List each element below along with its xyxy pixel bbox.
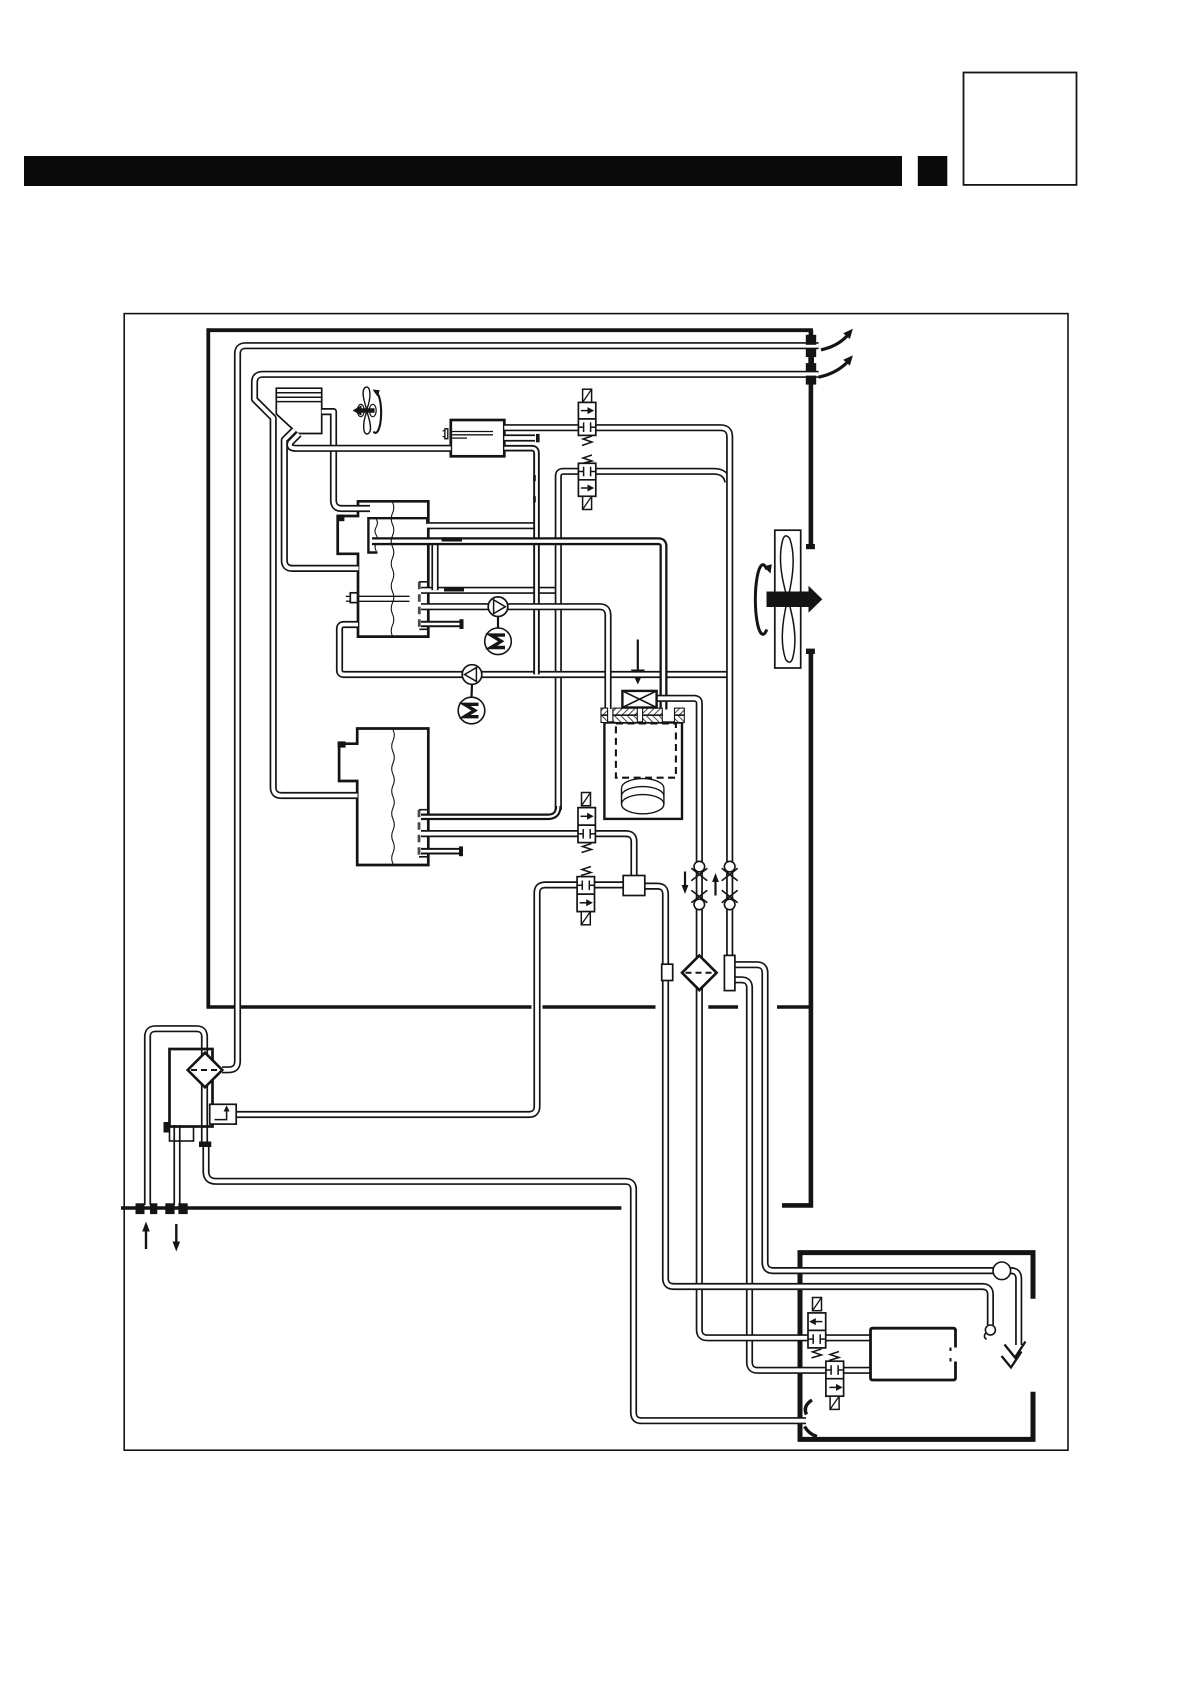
- heat pump left plug: [445, 429, 448, 439]
- machine frame top edge: [207, 328, 813, 332]
- wire P1 heat exchanger riser to top exhaust: [222, 346, 819, 1070]
- wire G heat exchanger lower drop: [173, 1125, 180, 1205]
- spray nozzle circle: [993, 1262, 1011, 1280]
- compressor header hatched blocks: [601, 708, 608, 715]
- orifice rectangle on drip line: [662, 964, 673, 980]
- solenoid valve SV3: [578, 793, 595, 853]
- page number box: [964, 73, 1077, 185]
- bottom-left supply line: [121, 1206, 621, 1209]
- junction block square: [623, 876, 645, 896]
- upper tank body: [338, 501, 429, 636]
- black bar mark on H1 pipe: [444, 587, 464, 591]
- solenoid valve SV1: [578, 389, 595, 445]
- machine frame left edge: [206, 328, 210, 1008]
- condenser fins: [276, 392, 321, 394]
- splash crescent upper: [805, 1400, 812, 1415]
- machine frame bottom edge segment 1: [207, 1005, 532, 1008]
- exhaust curved arrow 1: [821, 336, 847, 350]
- lower tank body: [339, 729, 428, 866]
- check valve CV2: [724, 861, 735, 872]
- lower tank notch nub: [338, 741, 346, 747]
- compressor chamber dashed liner: [616, 724, 676, 778]
- machine frame bottom edge segment 2: [543, 1005, 656, 1008]
- wire S1 manifold to spray nozzle circle: [735, 965, 1019, 1345]
- upper tank level wavy line: [391, 502, 394, 636]
- wire rod pipe tank to compressor header: [372, 541, 664, 709]
- wire condenser to heat pump suction: [290, 434, 451, 448]
- lower tank stub with cap: [421, 848, 459, 855]
- wall upper cap: [806, 544, 815, 549]
- upper tank heater element lines: [358, 595, 410, 597]
- supply up arrow: [145, 1230, 147, 1249]
- solenoid valve SV2: [578, 455, 595, 510]
- heat exchanger corner nub: [164, 1122, 171, 1133]
- title bar: [24, 156, 902, 186]
- fan shroud: [775, 530, 801, 668]
- machine frame right wall upper segment: [809, 330, 814, 544]
- heat pump inner lines: [452, 431, 493, 433]
- CV1 down arrow: [684, 872, 686, 887]
- wall exhaust squares: [806, 335, 816, 345]
- drain funnel chevrons: [1005, 1342, 1026, 1358]
- restrictor box with arrow: [210, 1104, 237, 1124]
- silencer rectangle: [871, 1328, 956, 1380]
- compressor chamber box: [604, 723, 682, 819]
- heat exchanger bottom black bar: [199, 1142, 211, 1148]
- lower tank level wavy line: [392, 730, 395, 864]
- supply line connector squares: [136, 1203, 145, 1214]
- machine frame bottom edge segment 3: [708, 1005, 738, 1008]
- condenser box top-left: [276, 388, 321, 433]
- manifold rectangle: [724, 955, 735, 990]
- filter F2 diamond: [682, 956, 717, 991]
- CV2 up arrow: [714, 881, 716, 896]
- wire W condenser outlet to upper tank top: [322, 412, 370, 509]
- tick marks on Va column: [533, 475, 536, 481]
- heat exchanger lower housing: [170, 1127, 194, 1141]
- splash crescent lower: [805, 1427, 818, 1437]
- upper tank dashed service panel: [418, 582, 421, 630]
- fan air flow arrow: [767, 586, 823, 613]
- motor M1: [485, 628, 512, 655]
- fan blades: [780, 536, 794, 662]
- exhaust curved arrow 2: [819, 363, 848, 378]
- wire Va heat pump drop column: [504, 448, 536, 674]
- sight glass X box: [622, 691, 656, 708]
- machine frame bottom edge segment 4: [777, 1005, 811, 1008]
- wire pump2 suction loop tank to junction column: [340, 625, 732, 675]
- drip nozzle: [985, 1325, 995, 1335]
- pump P2: [470, 684, 473, 697]
- outer border: [124, 314, 1068, 1451]
- wire tank top port to condensate column: [427, 522, 537, 529]
- inlet down arrow: [637, 640, 639, 674]
- wire P3 condenser to upper tank port: [284, 430, 358, 569]
- check valve CV1: [694, 861, 705, 872]
- wire H1 tank mid port to drain column: [421, 587, 556, 594]
- wire Vb valve SV1 line and check column: [504, 428, 729, 956]
- wire CV1 line sight glass to filter F2 to valve T1: [657, 698, 871, 1338]
- wire B junction block to drip nozzle: [645, 886, 990, 1325]
- propeller fan icon top-left: [353, 387, 382, 434]
- compressor float cylinder: [622, 795, 664, 814]
- wire valve SV2 outlet to Vb column: [595, 471, 728, 482]
- motor M2: [458, 697, 485, 724]
- wire V4 line junction block through valve SV4 down to HX restrictor: [236, 885, 623, 1115]
- wall lower cap: [806, 649, 815, 654]
- supply down arrow: [175, 1224, 177, 1243]
- wire P2 top exhaust to lower tank: [255, 374, 819, 795]
- wire R valve SV2 down to lower tank: [558, 471, 579, 810]
- upper tank stub with cap: [421, 621, 460, 628]
- fan rotation arc: [755, 565, 766, 635]
- upper tank notch nub: [337, 515, 344, 522]
- machine frame right wall lower segment with foot: [782, 654, 811, 1206]
- heat pump stub cap: [536, 434, 540, 442]
- valve T1: [808, 1298, 826, 1358]
- title bar end square: [918, 156, 948, 186]
- filter F1 diamond: [188, 1053, 223, 1088]
- wire TL loop over heat exchanger: [148, 1029, 205, 1205]
- valve T2: [826, 1352, 844, 1410]
- wire Q lower tank through valve SV3 to junction block: [421, 834, 634, 876]
- blower enclosure border: [800, 1253, 1033, 1440]
- solenoid valve SV4: [577, 867, 594, 925]
- lower tank dashed service panel: [418, 810, 421, 857]
- wire S2 manifold to valve T2 and silencer: [735, 980, 871, 1371]
- upper tank inner wavy line: [375, 519, 378, 551]
- heat exchanger tall housing: [170, 1049, 213, 1127]
- wire stub x435: [431, 545, 438, 590]
- wire E drain line HX to blower enclosure: [206, 1145, 806, 1421]
- wire heat pump stub with cap: [504, 434, 535, 441]
- black bar mark on rod pipe: [442, 537, 463, 541]
- wire pump1 line tank to compressor header: [421, 607, 608, 709]
- upper tank inner lid: [368, 518, 427, 552]
- pump P1: [497, 617, 499, 629]
- heat pump unit rectangle: [451, 420, 505, 456]
- upper tank heater element plug: [350, 593, 357, 603]
- wire R lower elbow into lower tank port: [421, 806, 558, 817]
